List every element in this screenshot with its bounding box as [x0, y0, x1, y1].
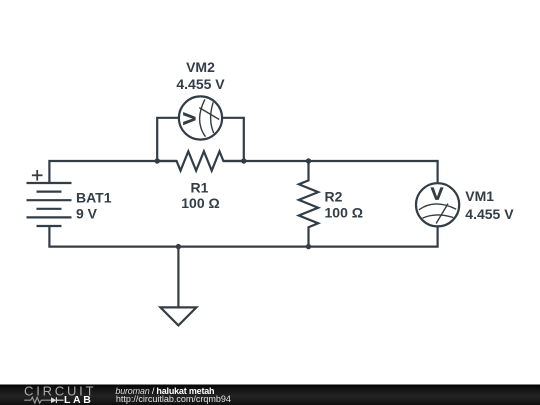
svg-text:VM1: VM1 [465, 188, 494, 204]
svg-text:http://circuitlab.com/crqmb94: http://circuitlab.com/crqmb94 [116, 394, 231, 404]
svg-text:100 Ω: 100 Ω [325, 205, 363, 221]
junction node: R2 top [306, 158, 311, 163]
svg-text:9 V: 9 V [76, 206, 98, 222]
svg-text:4.455 V: 4.455 V [465, 206, 514, 222]
junction node: ground tap [176, 244, 181, 249]
svg-text:LAB: LAB [64, 394, 93, 405]
svg-text:R1: R1 [191, 180, 209, 196]
battery BAT1 plates [27, 183, 72, 226]
footer black bar [0, 385, 540, 405]
wire: bottom net from battery - to VM1 bottom [49, 226, 437, 247]
CircuitLab logo diode [51, 397, 64, 403]
svg-text:4.455 V: 4.455 V [176, 76, 225, 92]
svg-text:VM2: VM2 [186, 59, 215, 75]
voltmeter VM2 body [179, 96, 222, 139]
svg-text:BAT1: BAT1 [76, 190, 112, 206]
wire: top net from battery + to VM1 (left segment to R1) [49, 161, 176, 183]
ground symbol triangle [160, 307, 196, 325]
junction node: R2 bottom [306, 244, 311, 249]
svg-text:R2: R2 [325, 189, 343, 205]
junction node: R1 right / VM2 right [241, 158, 246, 163]
wire: ground stem [177, 247, 179, 308]
wire: VM2 right lead [222, 118, 244, 161]
battery BAT1 plus sign [32, 170, 43, 181]
voltmeter VM2 face (rotated 90 CCW) [183, 99, 219, 136]
voltmeter VM1 face [419, 187, 456, 223]
resistor R2 zigzag [299, 161, 318, 247]
junction node: R1 left / VM2 left [155, 158, 160, 163]
wire: VM2 left lead [157, 118, 179, 161]
voltmeter VM1 body [416, 183, 459, 226]
wire: top net between R1 and VM1 [223, 161, 437, 183]
CircuitLab logo mini schematic wire and resistor [24, 397, 51, 403]
svg-text:100 Ω: 100 Ω [181, 195, 219, 211]
resistor R1 zigzag [157, 151, 244, 170]
